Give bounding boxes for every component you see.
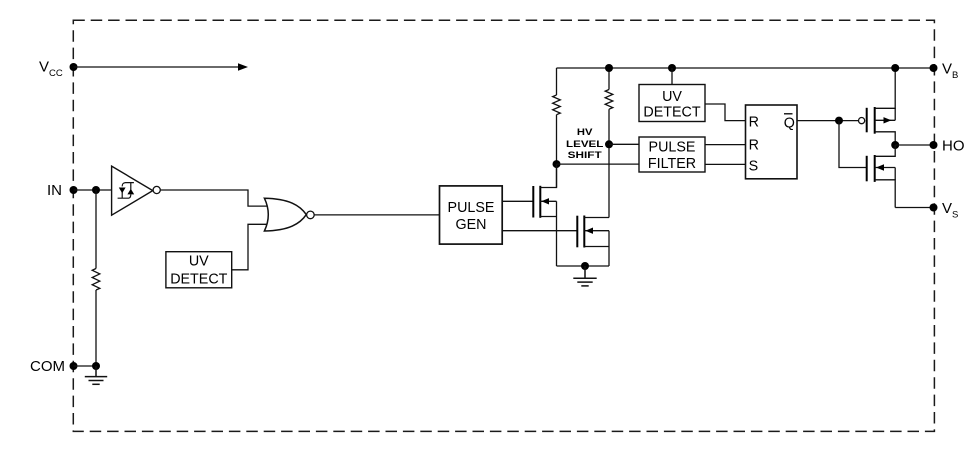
- wire U2 to pulse gen: [314, 214, 439, 216]
- resistor R-hv2: [605, 90, 613, 110]
- wire COM to ground node: [74, 365, 97, 367]
- left HV line top: [556, 68, 558, 95]
- M3 body tie vertical: [894, 108, 896, 120]
- svg-text:FILTER: FILTER: [648, 156, 696, 172]
- M3 body stub with arrow: [875, 119, 896, 121]
- transistor M4 gate bar: [866, 156, 868, 182]
- node HV left: [553, 160, 561, 168]
- wire M4 source to VS pin: [895, 207, 933, 209]
- U2 output bubble: [307, 211, 315, 219]
- wire UV detect 2 to latch R1: [705, 104, 746, 121]
- wire HO node to pin: [895, 144, 933, 146]
- M2 body stub with arrow: [584, 230, 609, 232]
- NOR gate U2: [264, 198, 306, 231]
- VCC arrowhead: [238, 63, 248, 71]
- wire rail to UV detect 2: [671, 68, 673, 85]
- svg-text:UV: UV: [189, 253, 209, 269]
- M4 body stub with arrow: [875, 167, 896, 169]
- M2 source stub: [584, 246, 609, 248]
- M3 channel bar: [874, 107, 876, 134]
- low rail between M1 and M2 sources: [557, 265, 610, 267]
- M1 drain stub: [540, 164, 556, 187]
- transistor M3 gate bar: [866, 108, 868, 133]
- wire pulse gen to M1 gate: [502, 200, 533, 202]
- UV detect block (input side): [166, 252, 232, 288]
- svg-text:IN: IN: [47, 182, 62, 199]
- svg-text:PULSE: PULSE: [448, 200, 495, 216]
- top rail VB: [557, 67, 934, 69]
- M4 drain stub: [875, 145, 896, 156]
- resistor R-hv1: [553, 95, 561, 115]
- M4 source stub: [875, 180, 896, 208]
- M4 body tie vertical: [894, 168, 896, 180]
- transistor M2 gate bar: [576, 216, 578, 248]
- node rail x895: [891, 64, 899, 72]
- wire pulse filter to latch R2: [705, 144, 746, 146]
- resistor R-in: [92, 269, 100, 291]
- M1 source stub: [540, 216, 556, 218]
- svg-text:PULSE: PULSE: [649, 140, 696, 156]
- svg-text:DETECT: DETECT: [643, 104, 700, 120]
- svg-text:HO: HO: [942, 138, 965, 155]
- node HV right: [605, 140, 613, 148]
- node HO: [891, 141, 899, 149]
- left HV line bottom: [556, 115, 558, 188]
- wire node to pulse filter lower input: [557, 163, 640, 165]
- wire U1 output to NOR top input: [160, 190, 272, 206]
- M2 drain stub: [584, 217, 609, 219]
- svg-text:Q: Q: [784, 115, 795, 131]
- svg-text:LEVEL: LEVEL: [566, 139, 604, 149]
- M2 channel bar: [583, 216, 585, 248]
- wire node to pulse filter upper input: [609, 143, 639, 145]
- node rail x609: [605, 64, 613, 72]
- node at ground: [92, 362, 100, 370]
- node on IN net: [92, 186, 100, 194]
- UV detect block (high side): [639, 85, 705, 122]
- M2 source/body vertical: [608, 231, 610, 266]
- M1 channel bar: [539, 186, 541, 218]
- svg-text:UV: UV: [662, 89, 682, 105]
- ground symbol at COM: [85, 366, 107, 384]
- M3 drain stub: [875, 132, 896, 145]
- wire pulse gen to M2 gate: [502, 230, 577, 232]
- wire resistor to COM rail: [95, 290, 97, 366]
- pin VS node: [930, 204, 938, 212]
- node Q: [835, 117, 843, 125]
- M1 body stub with arrow: [540, 200, 556, 202]
- right HV line bottom: [608, 109, 610, 217]
- pin HO node: [930, 141, 938, 149]
- wire Q node down to M4 gate: [839, 121, 867, 168]
- M1 source/body vertical to low rail: [556, 201, 558, 266]
- right HV line top: [608, 68, 610, 90]
- pin IN node: [70, 186, 78, 194]
- wire pulse filter to latch S: [705, 163, 746, 165]
- svg-text:HV: HV: [577, 127, 593, 137]
- ground symbol internal: [573, 266, 596, 286]
- latch U3: [746, 105, 798, 179]
- wire UV detect to NOR bottom input: [232, 224, 272, 269]
- svg-text:S: S: [749, 158, 759, 174]
- pin VCC node: [70, 63, 78, 71]
- svg-text:COM: COM: [30, 358, 65, 375]
- VCC arrow wire: [74, 66, 240, 68]
- svg-text:SHIFT: SHIFT: [568, 150, 603, 160]
- pulse filter block: [639, 137, 705, 172]
- M3 gate bubble: [859, 118, 865, 124]
- svg-text:DETECT: DETECT: [170, 271, 227, 287]
- pin VB node: [930, 64, 938, 72]
- svg-text:R: R: [749, 138, 759, 154]
- transistor M1 gate bar: [532, 186, 534, 218]
- pulse gen block: [440, 186, 503, 244]
- svg-text:GEN: GEN: [456, 217, 487, 233]
- schmitt buffer U1: [112, 166, 153, 215]
- wire latch Q to driver: [797, 120, 859, 122]
- svg-text:R: R: [749, 115, 759, 131]
- U1 output bubble: [153, 186, 160, 193]
- wire IN to buffer: [74, 189, 113, 191]
- node at internal ground: [581, 262, 589, 270]
- M3 source stub: [875, 68, 896, 108]
- U1 hysteresis glyph: [118, 183, 134, 199]
- pin COM node: [70, 362, 78, 370]
- node rail x672: [668, 64, 676, 72]
- wire IN node down to resistor: [95, 190, 97, 269]
- M4 channel bar: [874, 155, 876, 182]
